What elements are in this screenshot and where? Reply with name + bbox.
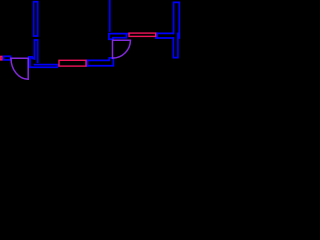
wall W2 small rectangle below W1: [34, 40, 37, 62]
floor plan CAD drawing: [0, 0, 200, 200]
wall W1 top-left tall rectangle: [34, 2, 38, 36]
top-middle wall outline: [109, 34, 129, 40]
red windows: [0, 33, 156, 66]
long top vline: [109, 0, 111, 31]
blue walls: [4, 0, 180, 67]
window 2: [129, 33, 156, 36]
middle door arc: [113, 40, 131, 58]
right wall verticals: [174, 2, 180, 38]
wall right of window 1: [87, 60, 89, 66]
wall corner down to lower hline: [30, 57, 58, 67]
window 1: [59, 60, 86, 66]
purple doors: [11, 40, 130, 79]
hinge blob filled: [33, 57, 35, 59]
right wall lower segment: [173, 33, 178, 57]
upper-left wall hline: [34, 65, 58, 66]
left door leaf + radius: [11, 58, 28, 79]
blue box at far left: [4, 56, 11, 60]
left door arc: [11, 58, 28, 79]
wall right of window 2: [156, 33, 158, 38]
wall step left of hinge: [29, 57, 32, 58]
tiny red box far left: [0, 56, 2, 60]
middle door leaf + radius: [113, 40, 131, 58]
